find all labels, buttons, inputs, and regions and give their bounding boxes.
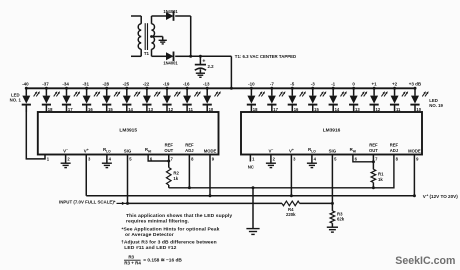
svg-text:SIG: SIG: [124, 148, 132, 153]
svg-text:T1: T1: [144, 51, 150, 56]
svg-text:SeekIC.com: SeekIC.com: [395, 255, 455, 267]
svg-text:or Average Detector: or Average Detector: [125, 232, 174, 238]
svg-text:-13: -13: [203, 82, 210, 87]
svg-text:+2: +2: [392, 82, 398, 87]
svg-text:NO. 1: NO. 1: [10, 98, 22, 103]
svg-text:MODE: MODE: [204, 148, 217, 153]
svg-text:NC: NC: [248, 164, 254, 169]
svg-text:SIG: SIG: [329, 148, 337, 153]
svg-text:1k: 1k: [378, 177, 383, 182]
svg-text:NO. 19: NO. 19: [429, 103, 443, 108]
svg-text:*See Application Hints for opt: *See Application Hints for optional Peak: [122, 226, 220, 232]
svg-text:OUT: OUT: [164, 148, 173, 153]
svg-text:-22: -22: [143, 82, 150, 87]
svg-text:R3: R3: [128, 255, 134, 260]
svg-text:+: +: [202, 58, 205, 64]
svg-text:T1: 6.3 VAC CENTER TAPPED: T1: 6.3 VAC CENTER TAPPED: [235, 54, 296, 59]
svg-text:-16: -16: [183, 82, 190, 87]
svg-text:MODE: MODE: [408, 148, 421, 153]
svg-text:-25: -25: [123, 82, 130, 87]
svg-text:OUT: OUT: [369, 148, 378, 153]
svg-text:-19: -19: [163, 82, 170, 87]
svg-text:-7: -7: [270, 82, 274, 87]
svg-text:-1: -1: [331, 82, 335, 87]
svg-text:2.2: 2.2: [208, 64, 215, 69]
svg-text:This application shows that th: This application shows that the LED supp…: [126, 213, 232, 219]
svg-text:LM3916: LM3916: [323, 128, 341, 134]
svg-text:-40: -40: [22, 82, 29, 87]
svg-text:LM3915: LM3915: [119, 128, 137, 134]
svg-text:†Adjust R3 for 3 dB difference: †Adjust R3 for 3 dB difference between: [121, 239, 217, 245]
svg-text:= 0.158 ≅ −16 dB: = 0.158 ≅ −16 dB: [143, 258, 182, 264]
svg-text:-5: -5: [290, 82, 294, 87]
svg-text:R3 + R4: R3 + R4: [124, 261, 141, 266]
svg-text:-3: -3: [311, 82, 315, 87]
svg-text:ADJ: ADJ: [390, 148, 399, 153]
svg-text:ADJ: ADJ: [185, 148, 194, 153]
svg-text:-34: -34: [62, 82, 69, 87]
svg-text:+: +: [426, 194, 428, 198]
svg-text:1k: 1k: [173, 176, 178, 181]
svg-text:-31: -31: [82, 82, 89, 87]
svg-text:INPUT (7.0V FULL SCALE)*: INPUT (7.0V FULL SCALE)*: [59, 199, 116, 204]
svg-text:1N4001: 1N4001: [163, 9, 178, 14]
svg-text:+1: +1: [372, 82, 378, 87]
svg-text:62k: 62k: [337, 217, 345, 222]
svg-text:1N4001: 1N4001: [163, 61, 178, 66]
svg-text:+3 dB: +3 dB: [409, 82, 422, 87]
svg-text:220k: 220k: [286, 212, 296, 217]
svg-text:(12V TO 20V): (12V TO 20V): [430, 194, 459, 199]
svg-text:-37: -37: [42, 82, 49, 87]
svg-text:-10: -10: [248, 82, 255, 87]
svg-text:-28: -28: [103, 82, 110, 87]
svg-text:LED #11 and LED #12: LED #11 and LED #12: [124, 245, 176, 251]
svg-text:requires minimal filtering.: requires minimal filtering.: [126, 218, 190, 224]
